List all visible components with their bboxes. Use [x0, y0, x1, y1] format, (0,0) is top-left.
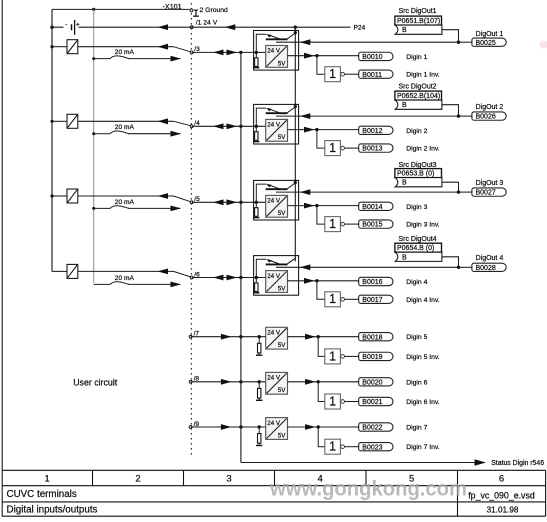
parameter box P0652 — [395, 91, 442, 100]
converter 24V/5V U3b — [266, 195, 288, 217]
binector B0014 — [359, 202, 393, 211]
svg-text:5V: 5V — [278, 210, 286, 217]
wire drop to inverter row 5 — [318, 337, 325, 357]
battery B1 (user 24V supply) — [64, 20, 80, 35]
svg-text:B0011: B0011 — [362, 72, 382, 79]
terminal X101/5 — [190, 201, 193, 204]
ground symbol at terminal 2 — [193, 10, 199, 16]
wire emitter feedback row 1 — [256, 34, 266, 52]
svg-text:B0015: B0015 — [362, 222, 382, 229]
ground symbol row 5 — [256, 353, 262, 355]
wire 20mA row 2 to arrow — [128, 133, 180, 135]
resistor R1 input load — [255, 52, 257, 57]
junction input row 4 on status rail — [239, 276, 242, 279]
resistor R5 input load — [258, 337, 260, 344]
svg-text:Digin 6 Inv.: Digin 6 Inv. — [406, 399, 440, 406]
svg-text:P0651.B(107): P0651.B(107) — [397, 18, 440, 25]
wire input row 5 terminal to converter — [191, 336, 266, 338]
svg-text:Digin 1 Inv.: Digin 1 Inv. — [406, 72, 440, 79]
arrow converter output row 6 — [305, 379, 316, 385]
svg-text:www.gongkong.com: www.gongkong.com — [269, 478, 467, 501]
switch contact 20 mA row 1 — [94, 56, 129, 59]
switch contact 20 mA row 4 — [94, 282, 129, 285]
junction DigOut row 4 — [457, 266, 460, 269]
binector B0016 — [359, 277, 393, 286]
junction output row 4 — [315, 279, 318, 282]
svg-text:B0020: B0020 — [362, 379, 382, 386]
ground symbol row 7 — [256, 443, 262, 445]
wire input row 7 terminal to converter — [191, 426, 266, 428]
transistor Q4 output stage — [266, 258, 296, 264]
current arrow on P24 wire pointing left — [225, 24, 236, 30]
junction output row 7 — [317, 425, 320, 428]
svg-text:DigOut 1: DigOut 1 — [476, 31, 504, 38]
junction 20mA row 3 on rail B — [92, 207, 95, 210]
svg-text:5V: 5V — [278, 60, 286, 67]
terminal X101/3 — [190, 51, 193, 54]
ground symbol row 1 — [253, 66, 259, 67]
wire converter output row 6 — [288, 381, 359, 383]
svg-text:B0012: B0012 — [362, 128, 382, 135]
current arrow row 7 pointing right — [221, 424, 232, 430]
wire relay row 3 from rail A to terminal — [52, 195, 67, 197]
svg-text:B0017: B0017 — [362, 297, 382, 304]
svg-text:3: 3 — [226, 474, 231, 485]
junction relay row 1 on rail A — [50, 45, 53, 48]
current arrow 20mA row 4 pointing right — [171, 282, 182, 288]
inverter (NOT gate) N5 — [325, 349, 345, 364]
wire inverter output row 2 — [345, 147, 359, 149]
svg-text:5V: 5V — [278, 432, 286, 439]
title block table — [2, 470, 546, 516]
terminal X101/2 — [190, 9, 193, 12]
parameter box P0651 — [395, 16, 442, 25]
wire inverter output row 4 — [345, 298, 359, 300]
junction collector row 2 on P24 rail — [294, 105, 297, 108]
svg-text:1: 1 — [329, 394, 336, 408]
svg-text:Src DigOut4: Src DigOut4 — [398, 236, 436, 243]
binector B0023 — [359, 443, 393, 452]
current arrow 20mA row 3 pointing right — [171, 206, 182, 212]
svg-text:24 V: 24 V — [267, 375, 281, 382]
current arrow relay row 1 pointing left — [158, 44, 169, 50]
svg-text:B0013: B0013 — [362, 146, 382, 153]
watermark pink fragment — [539, 41, 547, 49]
transistor Q1 output stage — [266, 33, 296, 39]
svg-text:Digin 3 Inv.: Digin 3 Inv. — [406, 222, 440, 229]
svg-text:Digin 2 Inv.: Digin 2 Inv. — [406, 146, 440, 153]
svg-text:B0025: B0025 — [476, 40, 496, 47]
ground symbol row 4 — [253, 292, 259, 293]
binector B0019 — [359, 352, 393, 361]
wire 20mA row 3 to arrow — [128, 207, 180, 209]
current arrow row 6 pointing right — [221, 379, 232, 385]
arrow converter output row 7 — [305, 424, 316, 430]
converter 24V/5V U5 — [266, 327, 288, 349]
arrow Status Digin pointing right — [475, 459, 487, 466]
binector B0013 — [359, 144, 393, 153]
junction output row 6 — [317, 380, 320, 383]
relay contact K2 (user circuit) — [67, 114, 78, 128]
arrow converter output row 4 — [304, 278, 315, 284]
junction input row 1 on status rail — [239, 51, 242, 54]
wire DigOut drive row 4 into module — [276, 266, 459, 268]
svg-text:B0027: B0027 — [476, 190, 496, 197]
wire DigOut drive row 3 into module — [276, 191, 459, 193]
junction DigOut row 2 — [457, 114, 460, 117]
junction output row 2 — [315, 128, 318, 131]
junction input row 1 resistor tap — [255, 51, 258, 54]
wire P24 from terminal /1 to label — [192, 26, 351, 28]
svg-text:-X101: -X101 — [163, 2, 182, 11]
ground symbol row 3 — [253, 216, 259, 217]
binector B0022 — [359, 423, 393, 432]
svg-text:fp_vc_090_e.vsd: fp_vc_090_e.vsd — [468, 491, 535, 501]
svg-text:24 V: 24 V — [267, 273, 281, 280]
wire top bus from left rail to terminal strip — [52, 8, 190, 10]
resistor R2 input load — [255, 126, 257, 131]
arrow DigOut drive row 2 pointing left — [300, 113, 311, 119]
svg-text:B0018: B0018 — [362, 334, 382, 341]
bidirectional current arrows row 2 — [213, 123, 224, 129]
switch contact 20 mA row 2 — [94, 131, 129, 134]
junction input row 5 on status rail — [239, 335, 242, 338]
wire 24V from battery to terminal /1 — [52, 26, 192, 28]
svg-text:B: B — [402, 102, 407, 109]
parameter box P0653 — [395, 169, 442, 178]
inverter (NOT gate) N2 — [325, 141, 345, 156]
wire status collection rail vertical — [240, 52, 242, 462]
terminal X101/4 — [190, 125, 193, 128]
wire converter output row 2 — [288, 129, 359, 131]
bidirectional current arrows row 4 — [213, 275, 224, 281]
svg-text:Src DigOut1: Src DigOut1 — [398, 8, 436, 15]
svg-text:-: - — [65, 21, 67, 28]
svg-text:1: 1 — [329, 217, 336, 231]
binector B0027 — [472, 188, 506, 197]
binector input connector B row 3 — [395, 178, 442, 187]
junction input row 6 resistor tap — [258, 380, 261, 383]
svg-text:P0654.B (0): P0654.B (0) — [397, 245, 434, 252]
junction input row 7 resistor tap — [258, 425, 261, 428]
wire input row 6 terminal to converter — [191, 381, 266, 383]
wire emitter feedback row 3 — [256, 184, 266, 202]
junction collector row 3 on P24 rail — [294, 181, 297, 184]
svg-text:DigOut 3: DigOut 3 — [476, 180, 504, 187]
svg-text:Src DigOut3: Src DigOut3 — [398, 162, 436, 169]
resistor R6 input load — [258, 382, 260, 389]
wire inverter output row 5 — [345, 355, 359, 357]
terminal X101/1 — [190, 26, 193, 29]
terminal X101/6 — [190, 276, 193, 279]
junction top of rail B — [92, 8, 95, 11]
svg-text:24 V: 24 V — [267, 420, 281, 427]
wire drop to inverter row 4 — [317, 281, 325, 300]
junction input row 4 resistor tap — [255, 276, 258, 279]
wire drop to inverter row 7 — [318, 427, 325, 447]
binector B0025 — [472, 38, 506, 47]
svg-text:Digin 7 Inv.: Digin 7 Inv. — [406, 444, 440, 451]
svg-text:/1 24 V: /1 24 V — [196, 20, 218, 27]
junction 20mA row 1 on rail B — [92, 57, 95, 60]
svg-text:1: 1 — [329, 141, 336, 155]
svg-text:Digin 5 Inv.: Digin 5 Inv. — [406, 354, 440, 361]
svg-text:31.01.98: 31.01.98 — [487, 505, 519, 514]
wire P24 vertical rail feeding optocoupler collectors — [294, 27, 296, 261]
wire inverter output row 3 — [345, 223, 359, 225]
svg-text:Src DigOut2: Src DigOut2 — [398, 84, 436, 91]
converter 24V/5V U1b — [266, 46, 288, 68]
wire 20mA row 1 to arrow — [128, 58, 180, 60]
wire DigOut row 2 to binector — [459, 115, 472, 117]
svg-text:P0652.B(104): P0652.B(104) — [397, 93, 440, 100]
binector B0020 — [359, 378, 393, 387]
optocoupler module U3 outer box — [254, 180, 299, 220]
inverter (NOT gate) N7 — [325, 439, 345, 454]
wire drop to inverter row 1 — [317, 56, 325, 74]
junction collector row 1 on P24 rail — [294, 31, 297, 34]
junction DigOut row 1 — [457, 41, 460, 44]
wire from connector B to DigOut line row 1 — [442, 30, 459, 43]
svg-text:DigOut 2: DigOut 2 — [476, 104, 504, 111]
binector B0018 — [359, 333, 393, 342]
svg-text:B0014: B0014 — [362, 204, 382, 211]
current arrow relay row 4 pointing left — [158, 269, 169, 275]
optocoupler module U2 outer box — [254, 104, 299, 144]
binector B0015 — [359, 220, 393, 229]
current arrow 20mA row 1 pointing right — [171, 56, 182, 62]
arrow DigOut drive row 1 pointing left — [300, 39, 311, 45]
svg-text:5V: 5V — [278, 134, 286, 141]
wire DigOut row 4 to binector — [459, 266, 472, 268]
wire input row 1 terminal to converter — [192, 51, 266, 53]
svg-text:B: B — [402, 180, 407, 187]
wire from connector B to DigOut line row 2 — [442, 105, 459, 116]
binector input connector B row 1 — [395, 25, 442, 34]
junction input row 7 on status rail — [239, 425, 242, 428]
inverter (NOT gate) N1 — [325, 67, 345, 82]
wire relay row 1 from rail A to terminal — [52, 46, 67, 48]
junction DigOut row 3 — [457, 190, 460, 193]
svg-text:5V: 5V — [278, 285, 286, 292]
svg-text:B0026: B0026 — [476, 114, 496, 121]
converter 24V/5V U7 — [266, 418, 288, 440]
junction output row 1 — [315, 54, 318, 57]
ground symbol row 6 — [256, 398, 262, 400]
svg-text:20 mA: 20 mA — [115, 49, 135, 56]
svg-text:B0019: B0019 — [362, 354, 382, 361]
resistor R7 input load — [258, 427, 260, 434]
binector B0011 — [359, 70, 393, 79]
svg-text:Digital inputs/outputs: Digital inputs/outputs — [7, 505, 98, 516]
svg-text:1: 1 — [329, 349, 336, 363]
wire from connector B to DigOut line row 3 — [442, 182, 459, 192]
binector B0012 — [359, 126, 393, 135]
svg-text:24 V: 24 V — [267, 48, 281, 55]
wire relay row 2 from rail A to terminal — [52, 120, 67, 122]
wire drop to inverter row 3 — [317, 206, 325, 225]
arrow converter output row 1 — [304, 53, 315, 59]
current arrow relay row 3 pointing left — [158, 193, 169, 199]
page left border — [1, 0, 3, 517]
svg-text:B0021: B0021 — [362, 399, 382, 406]
wire relay row 4 from rail A to terminal — [52, 270, 67, 272]
wire input row 4 terminal to converter — [192, 277, 266, 279]
inverter (NOT gate) N4 — [325, 292, 345, 307]
transistor Q2 output stage — [266, 107, 296, 113]
svg-text:Digin 4: Digin 4 — [406, 279, 427, 286]
svg-text:Digin 4 Inv.: Digin 4 Inv. — [406, 297, 440, 304]
current arrow row 5 pointing right — [221, 334, 232, 340]
svg-text:B0022: B0022 — [362, 425, 382, 432]
junction input row 3 resistor tap — [255, 201, 258, 204]
svg-text:Status Digin r546: Status Digin r546 — [491, 460, 544, 467]
wire converter output row 3 — [288, 205, 359, 207]
wire status line horizontal — [241, 462, 476, 464]
svg-text:DigOut 4: DigOut 4 — [476, 255, 504, 262]
inverter (NOT gate) N3 — [325, 217, 345, 232]
converter 24V/5V U6 — [266, 372, 288, 394]
svg-text:User circuit: User circuit — [73, 378, 118, 388]
svg-text:Digin 6: Digin 6 — [406, 379, 427, 386]
junction output row 3 — [315, 204, 318, 207]
svg-text:P24: P24 — [354, 25, 366, 32]
inverter (NOT gate) N6 — [325, 394, 345, 409]
svg-text:20 mA: 20 mA — [115, 124, 135, 131]
svg-text:B: B — [402, 27, 407, 34]
junction input row 2 resistor tap — [255, 125, 258, 128]
wire converter output row 1 — [288, 55, 359, 57]
relay contact K1 (user circuit) — [67, 40, 78, 54]
svg-text:24 V: 24 V — [267, 198, 281, 205]
wire emitter feedback row 4 — [256, 259, 266, 277]
bidirectional current arrows row 1 — [213, 50, 224, 56]
ground symbol row 2 — [253, 140, 259, 141]
svg-text:B0028: B0028 — [476, 265, 496, 272]
switch contact 20 mA row 3 — [94, 206, 129, 209]
wire converter output row 4 — [288, 280, 359, 282]
resistor R4 input load — [255, 278, 257, 283]
svg-text:CUVC terminals: CUVC terminals — [7, 489, 77, 500]
converter 24V/5V U4b — [266, 271, 288, 293]
wire drop to inverter row 2 — [317, 130, 325, 149]
terminal X101/9 — [189, 426, 192, 429]
svg-text:1: 1 — [329, 440, 336, 454]
wire left rail A vertical — [51, 9, 53, 271]
wire inverter output row 1 — [345, 73, 359, 75]
svg-text:B: B — [402, 254, 407, 261]
arrow DigOut drive row 3 pointing left — [300, 189, 311, 195]
wire emitter feedback row 2 — [256, 108, 266, 126]
svg-text:Digin 2: Digin 2 — [406, 128, 427, 135]
current arrow 20mA row 2 pointing right — [171, 131, 182, 137]
arrow converter output row 3 — [304, 203, 315, 209]
svg-text:24 V: 24 V — [267, 330, 281, 337]
svg-text:24 V: 24 V — [267, 122, 281, 129]
wire input row 2 terminal to converter — [192, 125, 266, 127]
current arrow relay row 2 pointing left — [158, 118, 169, 124]
wire converter output row 7 — [288, 426, 359, 428]
junction input row 5 resistor tap — [258, 335, 261, 338]
terminal X101/8 — [189, 380, 192, 383]
svg-text:1: 1 — [329, 67, 336, 81]
binector input connector B row 4 — [395, 252, 442, 261]
svg-text:2: 2 — [135, 474, 140, 485]
bidirectional current arrows row 3 — [213, 199, 224, 205]
relay contact K3 (user circuit) — [67, 189, 78, 203]
wire 20mA row 4 to arrow — [128, 283, 180, 285]
terminal strip -X101 dotted line — [190, 3, 192, 455]
svg-text:5V: 5V — [278, 387, 286, 394]
terminal X101/7 — [189, 335, 192, 338]
binector B0017 — [359, 295, 393, 304]
current arrow on 24V wire pointing left — [158, 24, 169, 30]
svg-text:20 mA: 20 mA — [115, 199, 135, 206]
binector B0010 — [359, 52, 393, 61]
relay contact K4 (user circuit) — [67, 264, 78, 278]
svg-text:P0653.B (0): P0653.B (0) — [397, 171, 434, 178]
junction input row 6 on status rail — [239, 380, 242, 383]
wire input row 3 terminal to converter — [192, 201, 266, 203]
transistor Q3 output stage — [266, 183, 296, 189]
wire inverter output row 6 — [345, 401, 359, 403]
svg-text:Digin 7: Digin 7 — [406, 425, 427, 432]
junction 20mA row 2 on rail B — [92, 132, 95, 135]
junction relay row 3 on rail A — [50, 194, 53, 197]
arrow DigOut drive row 4 pointing left — [300, 264, 311, 270]
junction battery line on rail A — [50, 26, 53, 29]
binector B0026 — [472, 112, 506, 121]
parameter box P0654 — [395, 243, 442, 252]
wire inverter output row 7 — [345, 446, 359, 448]
optocoupler module U4 outer box — [254, 256, 299, 296]
binector B0028 — [472, 263, 506, 272]
svg-text:20 mA: 20 mA — [115, 275, 135, 282]
svg-text:B0023: B0023 — [362, 444, 382, 451]
junction relay row 2 on rail A — [50, 120, 53, 123]
svg-text:B0016: B0016 — [362, 279, 382, 286]
junction input row 3 on status rail — [239, 201, 242, 204]
svg-text:6: 6 — [499, 474, 504, 485]
wire DigOut row 1 to binector — [459, 41, 472, 43]
svg-text:Digin 5: Digin 5 — [406, 334, 427, 341]
wire DigOut drive row 2 into module — [276, 115, 459, 117]
svg-text:1: 1 — [45, 474, 50, 485]
wire converter output row 5 — [288, 336, 359, 338]
svg-text:B0010: B0010 — [362, 54, 382, 61]
binector B0021 — [359, 397, 393, 406]
binector input connector B row 2 — [395, 100, 442, 109]
arrow converter output row 5 — [305, 334, 316, 340]
resistor R3 input load — [255, 202, 257, 207]
wire from connector B to DigOut line row 4 — [442, 257, 459, 268]
wire drop to inverter row 6 — [318, 382, 325, 402]
junction P24 rail drop — [294, 26, 297, 29]
arrow converter output row 2 — [304, 127, 315, 133]
junction output row 5 — [317, 335, 320, 338]
svg-text:Digin 1: Digin 1 — [406, 54, 427, 61]
converter 24V/5V U2b — [266, 119, 288, 141]
wire rail B vertical (user 20mA return rail) — [93, 9, 95, 283]
svg-text:Digin 3: Digin 3 — [406, 204, 427, 211]
svg-text:5V: 5V — [278, 342, 286, 349]
wire DigOut row 3 to binector — [459, 191, 472, 193]
junction input row 2 on status rail — [239, 125, 242, 128]
optocoupler module U1 outer box — [254, 31, 299, 71]
svg-text:2 Ground: 2 Ground — [200, 7, 229, 14]
wire DigOut drive row 1 into module — [276, 41, 459, 43]
svg-text:1: 1 — [329, 292, 336, 306]
